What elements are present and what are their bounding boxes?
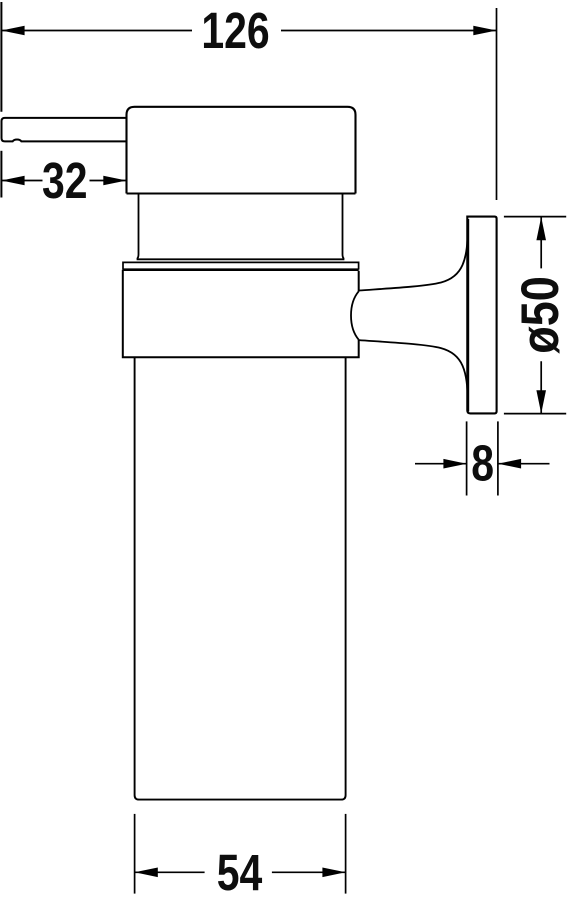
wall plate inner edge shading bbox=[468, 219, 470, 412]
holder trumpet top profile bbox=[359, 230, 468, 291]
dimension line 54 bbox=[135, 871, 346, 873]
svg-text:126: 126 bbox=[201, 1, 269, 58]
spout (pump nozzle tube) bbox=[2, 118, 127, 141]
bottle body bbox=[135, 357, 346, 799]
arrowhead 126 right bbox=[473, 26, 496, 36]
extension line bottom (for ø50) bbox=[504, 413, 566, 415]
dimension line ø50 bbox=[540, 218, 542, 414]
wall plate bbox=[467, 217, 496, 414]
extension line top (for ø50) bbox=[504, 216, 566, 218]
arrowhead ø50 up bbox=[536, 217, 546, 240]
arrowhead 32 right bbox=[103, 176, 126, 186]
arrowhead 54 left bbox=[135, 868, 158, 878]
collar top band bbox=[123, 262, 359, 269]
extension line right (for 8) bbox=[497, 421, 499, 495]
extension line right (for 126) bbox=[496, 8, 498, 200]
svg-text:ø50: ø50 bbox=[510, 276, 569, 354]
extension line left (for 54) bbox=[134, 814, 136, 894]
arrowhead 32 left bbox=[1, 176, 24, 186]
dimension line 126 bbox=[1, 30, 496, 32]
arrowhead ø50 down bbox=[536, 390, 546, 413]
arrowhead 8 right bbox=[498, 459, 521, 469]
dimension line 32 bbox=[1, 180, 126, 182]
arrowhead 8 left bbox=[443, 459, 466, 469]
collar band lower line bbox=[123, 268, 359, 271]
bottle neck bbox=[137, 194, 345, 260]
svg-text:8: 8 bbox=[471, 434, 494, 491]
extension line right (for 54) bbox=[345, 814, 347, 894]
svg-text:54: 54 bbox=[217, 844, 263, 901]
pump head bbox=[127, 107, 356, 194]
collar body bbox=[123, 270, 359, 358]
svg-text:32: 32 bbox=[42, 152, 88, 209]
arrowhead 126 left bbox=[1, 26, 24, 36]
socket arc on collar right edge bbox=[351, 291, 359, 340]
dimension line 8 bbox=[415, 463, 550, 465]
extension line left upper (for 126) bbox=[0, 2, 2, 112]
holder trumpet bottom profile bbox=[359, 340, 468, 400]
extension line left lower (for 32) bbox=[0, 151, 2, 198]
extension line left (for 8) bbox=[466, 421, 468, 495]
arrowhead 54 right bbox=[322, 868, 345, 878]
